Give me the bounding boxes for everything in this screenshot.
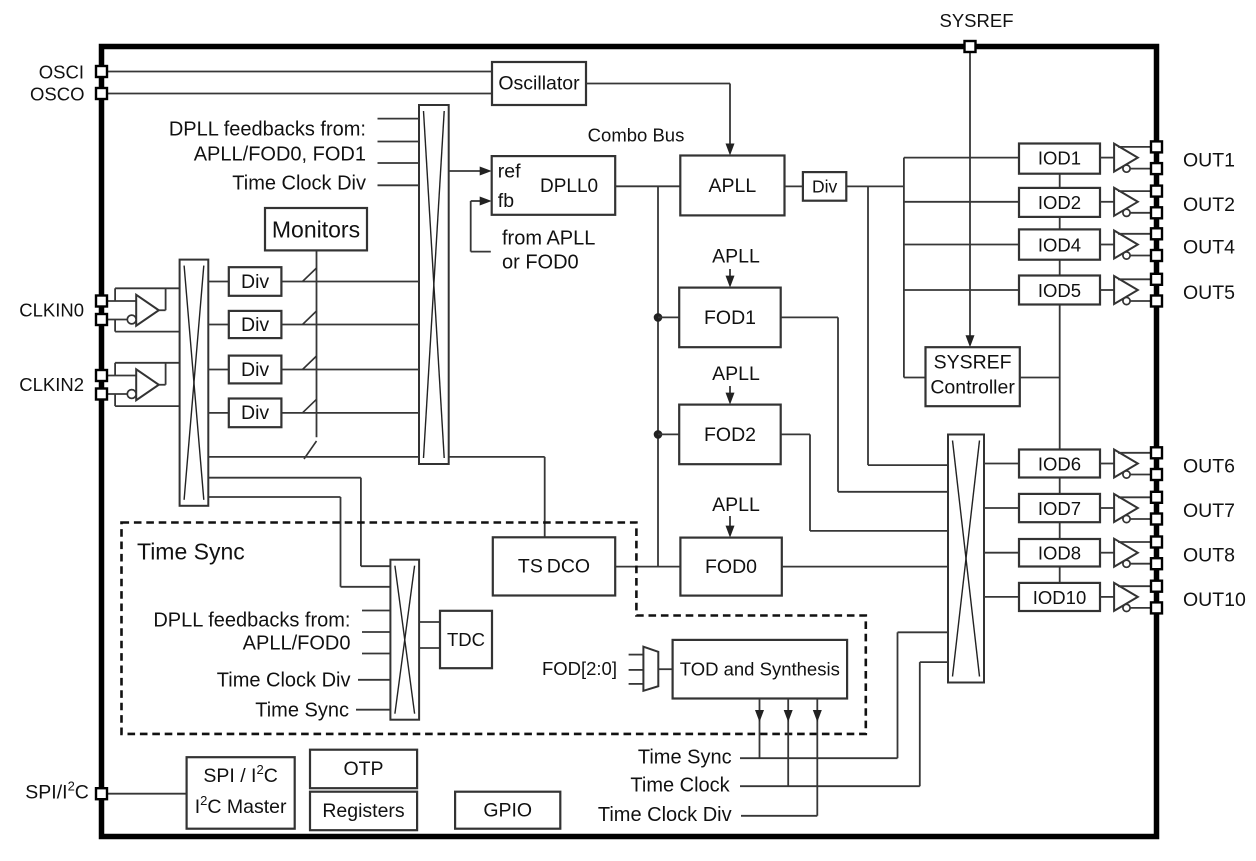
svg-text:OUT1: OUT1 <box>1183 150 1235 172</box>
svg-text:APLL/FOD0: APLL/FOD0 <box>243 632 351 654</box>
svg-text:TS DCO: TS DCO <box>518 555 590 577</box>
svg-text:Div: Div <box>241 359 269 381</box>
svg-text:GPIO: GPIO <box>483 799 532 821</box>
svg-text:Combo Bus: Combo Bus <box>588 125 685 146</box>
svg-text:TDC: TDC <box>447 629 485 650</box>
svg-text:Time Sync: Time Sync <box>137 539 245 565</box>
svg-text:FOD[2:0]: FOD[2:0] <box>542 658 617 679</box>
svg-text:OSCI: OSCI <box>39 62 84 83</box>
svg-text:IOD10: IOD10 <box>1033 587 1086 608</box>
svg-text:SPI / I2C: SPI / I2C <box>203 762 277 788</box>
svg-text:FOD1: FOD1 <box>704 307 756 329</box>
svg-text:Time Clock Div: Time Clock Div <box>598 804 732 826</box>
svg-text:OUT6: OUT6 <box>1183 456 1235 478</box>
svg-text:OUT2: OUT2 <box>1183 194 1235 216</box>
svg-text:OTP: OTP <box>343 758 383 780</box>
svg-text:IOD6: IOD6 <box>1038 454 1081 475</box>
svg-text:Registers: Registers <box>322 800 405 822</box>
svg-text:APLL/FOD0, FOD1: APLL/FOD0, FOD1 <box>194 143 366 165</box>
svg-text:DPLL feedbacks from:: DPLL feedbacks from: <box>153 610 350 632</box>
svg-text:Div: Div <box>241 271 269 293</box>
svg-text:CLKIN2: CLKIN2 <box>19 374 84 395</box>
svg-text:IOD5: IOD5 <box>1038 280 1081 301</box>
svg-text:OUT10: OUT10 <box>1183 589 1246 611</box>
svg-text:FOD0: FOD0 <box>705 556 757 578</box>
svg-text:OUT4: OUT4 <box>1183 237 1235 259</box>
svg-text:fb: fb <box>498 190 514 212</box>
svg-text:CLKIN0: CLKIN0 <box>19 300 84 321</box>
svg-text:Time Sync: Time Sync <box>638 746 732 768</box>
svg-text:Div: Div <box>812 176 838 196</box>
svg-text:Time Sync: Time Sync <box>255 699 349 721</box>
svg-text:APLL: APLL <box>712 363 760 385</box>
svg-text:Monitors: Monitors <box>272 217 360 243</box>
svg-text:from APLL: from APLL <box>502 228 595 250</box>
svg-text:Time Clock Div: Time Clock Div <box>217 669 351 691</box>
svg-text:APLL: APLL <box>709 175 757 197</box>
svg-text:ref: ref <box>498 161 521 183</box>
svg-text:IOD1: IOD1 <box>1038 148 1081 169</box>
svg-text:APLL: APLL <box>712 494 760 516</box>
svg-text:OUT5: OUT5 <box>1183 282 1235 304</box>
svg-text:IOD7: IOD7 <box>1038 498 1081 519</box>
svg-text:Controller: Controller <box>930 377 1015 399</box>
svg-text:SYSREF: SYSREF <box>939 10 1013 31</box>
svg-text:DPLL feedbacks from:: DPLL feedbacks from: <box>169 119 366 141</box>
svg-text:IOD8: IOD8 <box>1038 543 1081 564</box>
svg-text:SPI/I2C: SPI/I2C <box>25 778 89 804</box>
svg-text:Div: Div <box>241 314 269 336</box>
svg-text:SYSREF: SYSREF <box>934 352 1012 374</box>
svg-text:DPLL0: DPLL0 <box>540 176 598 197</box>
svg-text:or FOD0: or FOD0 <box>502 252 579 274</box>
svg-text:IOD4: IOD4 <box>1038 235 1081 256</box>
svg-text:TOD and Synthesis: TOD and Synthesis <box>680 659 840 680</box>
svg-text:Time Clock Div: Time Clock Div <box>232 173 366 195</box>
svg-text:IOD2: IOD2 <box>1038 192 1081 213</box>
svg-text:OUT7: OUT7 <box>1183 500 1235 522</box>
svg-text:I2C Master: I2C Master <box>195 793 287 819</box>
svg-text:OSCO: OSCO <box>30 84 84 105</box>
svg-text:APLL: APLL <box>712 246 760 268</box>
svg-text:OUT8: OUT8 <box>1183 545 1235 567</box>
svg-text:Time Clock: Time Clock <box>630 774 730 796</box>
svg-text:Div: Div <box>241 402 269 424</box>
svg-text:Oscillator: Oscillator <box>498 73 580 95</box>
svg-text:FOD2: FOD2 <box>704 424 756 446</box>
